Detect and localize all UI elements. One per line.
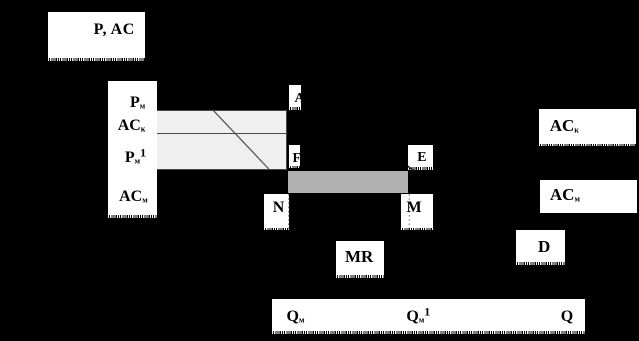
label box point F [289,145,300,166]
label box Q axis: Q_m, Q_m^1, Q [272,299,585,331]
label Q_m [287,309,305,325]
label N [273,200,285,216]
label box point A [289,85,302,108]
label box point N [264,194,289,228]
label Q [561,309,573,325]
label Q_m^1 [406,309,430,325]
label box point E [408,145,433,168]
label box AC_m (right, lower) [540,180,638,214]
shaded region F N M E (dark-gray rectangle) [288,171,409,193]
shaded region upper light-gray rectangle (P_m A F area) [150,110,287,135]
label P_m^1 [125,150,146,166]
label box P, AC (axis label) [48,12,145,58]
label P_m [130,95,145,111]
label box left column: P_m, AC_k, P_m1, AC_m [108,81,158,215]
shaded region lower light-gray rectangle [150,133,287,170]
label box AC_k (right, upper) [539,109,636,144]
label AC_k [118,118,146,134]
label box point M [401,194,433,228]
label box MR [336,241,385,275]
label AC_m [119,189,148,205]
label box D (demand curve label) [516,230,565,262]
label M [407,200,422,216]
